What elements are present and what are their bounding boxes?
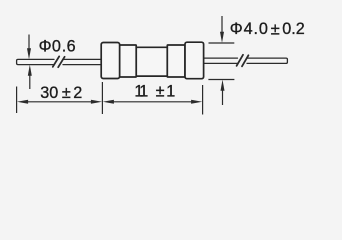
arrowhead left (30)	[17, 100, 28, 104]
body collar right	[167, 45, 185, 77]
arrow up to lead bottom	[29, 75, 31, 90]
arrow down to lead top	[28, 35, 30, 50]
svg-text:30±2: 30±2	[40, 84, 82, 102]
dimension 30 +/- 2	[17, 82, 203, 115]
arrow down to cap top	[221, 16, 223, 33]
end cap right	[185, 42, 204, 78]
extension line left	[16, 87, 18, 114]
dimension line 11	[113, 101, 193, 103]
dimension phi 0.6 : arrows	[28, 35, 31, 90]
arrowhead up	[221, 80, 225, 91]
svg-text:Φ0.6: Φ0.6	[39, 38, 76, 56]
break mark on right lead	[237, 55, 243, 66]
dimension phi 4.0 : extension lines and arrows	[208, 16, 234, 105]
wire: right lead segment B	[247, 58, 287, 63]
wire: left lead segment B	[63, 59, 101, 64]
arrowhead right (30)	[91, 100, 102, 104]
break mark on left lead	[53, 56, 59, 66]
extension line shared middle	[101, 82, 103, 114]
wire: left lead segment A	[17, 59, 54, 64]
fuse body	[101, 42, 203, 78]
extension line right	[202, 85, 204, 115]
svg-text:Φ4.0±0.2: Φ4.0±0.2	[230, 20, 305, 39]
arrowhead down	[220, 32, 224, 43]
arrowhead down	[27, 48, 31, 59]
arrowhead right (11)	[191, 100, 202, 104]
wire: right lead segment A	[204, 58, 238, 63]
arrowhead up	[28, 65, 32, 76]
extension line bottom of cap	[208, 79, 234, 81]
body collar left	[120, 45, 137, 77]
arrow up to cap bottom	[222, 90, 224, 106]
svg-text:11±1: 11±1	[134, 83, 175, 101]
dimension line 30	[27, 101, 93, 103]
arrowhead left (11)	[103, 100, 114, 104]
end cap left	[101, 43, 119, 79]
body middle tube	[136, 47, 167, 76]
extension line top of cap	[209, 42, 235, 44]
